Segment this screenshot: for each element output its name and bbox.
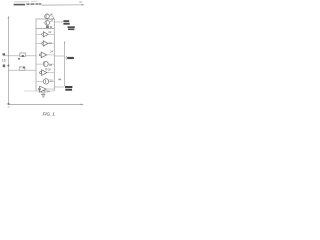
input tap 2: [8, 69, 36, 71]
transistor Q2: [45, 20, 50, 25]
transistor Q4: [43, 79, 48, 84]
label 16 left of rail: [3, 53, 6, 55]
ladder right bus: [53, 19, 55, 91]
label PU LOAD: [63, 20, 69, 22]
precharge device P1: [20, 53, 26, 57]
top line net 10: [42, 4, 84, 6]
input tap 1: [3, 55, 36, 57]
svg-text:24: 24: [48, 41, 52, 45]
junction dot: [7, 65, 9, 67]
svg-text:24: 24: [50, 50, 54, 54]
label TO LOAD: [67, 57, 74, 59]
bottom rail: [24, 90, 36, 92]
svg-text:22: 22: [48, 30, 52, 34]
transistor Q1: [45, 14, 50, 19]
inverter I3: [41, 52, 47, 58]
rail 2: [36, 27, 54, 29]
inverter I1: [43, 32, 48, 37]
svg-text:30: 30: [49, 78, 53, 82]
label TO SENSE: [65, 86, 72, 88]
svg-text:28: 28: [48, 68, 51, 72]
transistor Q3: [43, 61, 48, 66]
inverter I2: [43, 41, 48, 46]
wire to output: [54, 55, 64, 57]
numeral 14: [18, 58, 20, 60]
wire B vertical: [64, 41, 66, 43]
left input line: [8, 16, 10, 19]
label 12: [3, 65, 5, 68]
wire to sense amp: [54, 86, 64, 88]
ladder left bus: [35, 19, 37, 91]
ground: [41, 93, 45, 96]
top rail: [36, 18, 54, 20]
svg-text:34: 34: [46, 89, 50, 93]
output driver I5: [40, 86, 47, 92]
label 10 top right: [79, 1, 82, 3]
svg-text:20: 20: [50, 19, 54, 23]
brace: [65, 56, 68, 60]
svg-text:26: 26: [49, 63, 53, 67]
inverter I4: [42, 70, 48, 76]
svg-text:18: 18: [49, 12, 53, 16]
sheet header text: [14, 1, 29, 2]
wire to PU load: [54, 21, 63, 23]
svg-text:16: 16: [2, 58, 6, 62]
precharge device P2: [19, 67, 25, 70]
svg-text:FIG. 1: FIG. 1: [43, 112, 56, 117]
bottom line: [8, 103, 82, 105]
